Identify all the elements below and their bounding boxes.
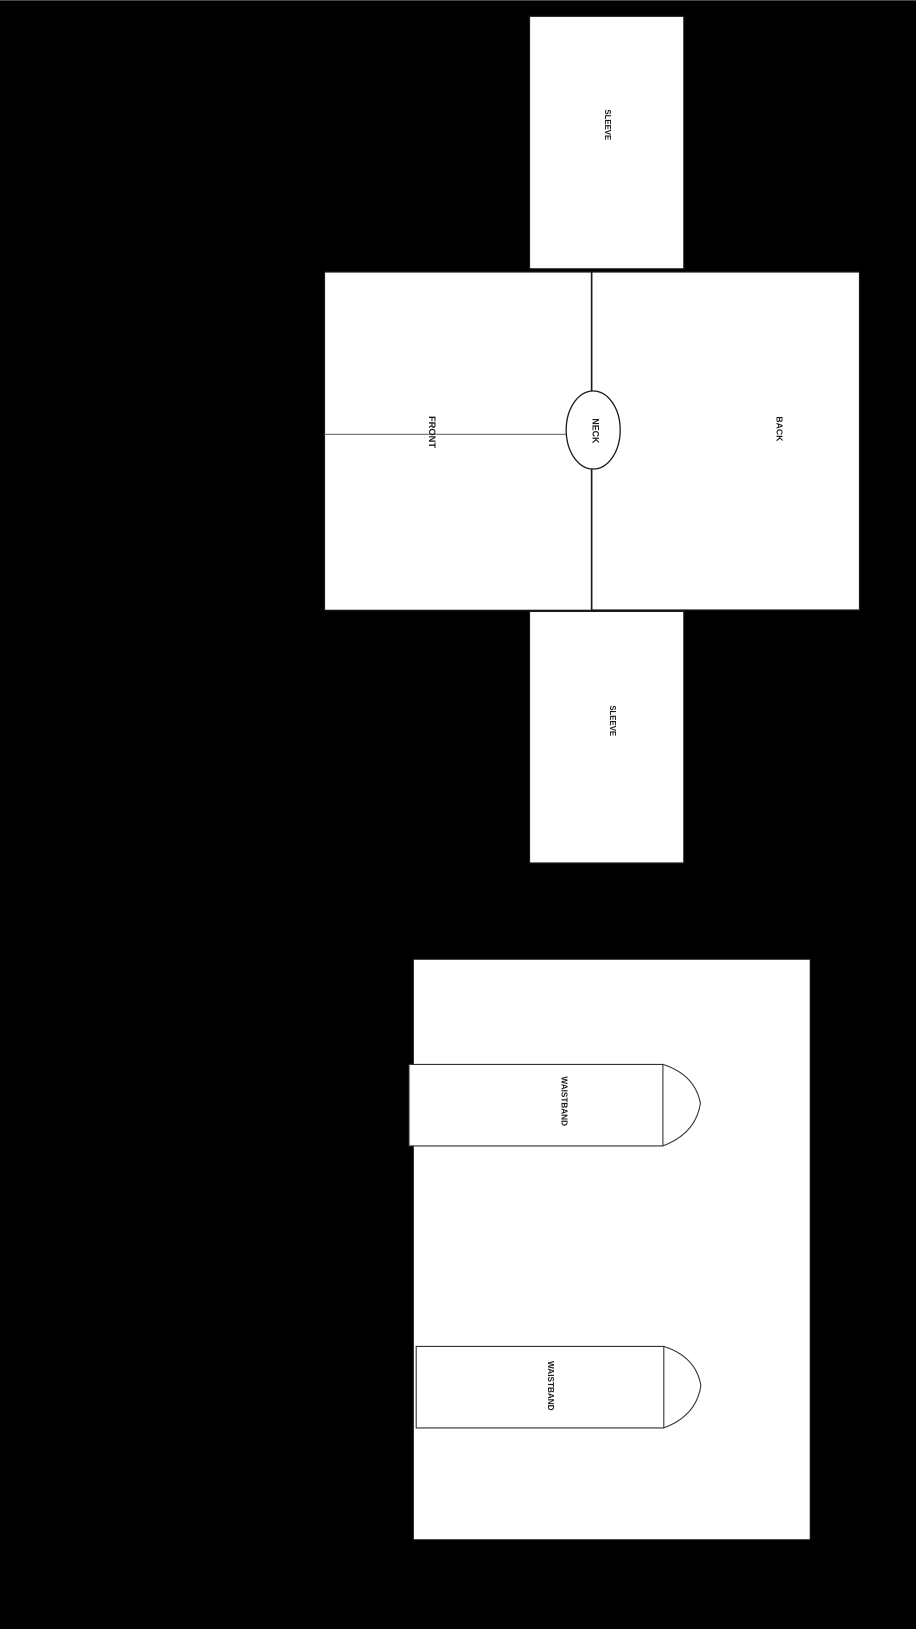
front piece (325, 272, 592, 610)
svg-text:SLEEVE: SLEEVE (608, 705, 617, 736)
front grainline (325, 433, 567, 435)
waistband (upper) fold line (662, 1064, 664, 1146)
waistband piece (lower) (416, 1346, 701, 1428)
svg-text:WAISTBAND: WAISTBAND (546, 1361, 555, 1411)
svg-text:NECK: NECK (591, 418, 601, 444)
sleeve piece (top) (530, 16, 684, 268)
svg-text:SLEEVE: SLEEVE (603, 109, 612, 140)
back piece (592, 272, 860, 610)
neck ellipse (566, 391, 620, 469)
waistband (lower) fold line (663, 1346, 665, 1428)
svg-text:FRONT: FRONT (427, 416, 437, 448)
waistband piece (upper) (409, 1064, 700, 1146)
svg-text:BACK: BACK (775, 416, 785, 442)
fabric panel (413, 959, 810, 1539)
top hairline (0, 0, 916, 2)
svg-text:WAISTBAND: WAISTBAND (559, 1076, 568, 1126)
front/back divider line (591, 272, 593, 610)
sleeve piece (bottom) (530, 611, 684, 863)
